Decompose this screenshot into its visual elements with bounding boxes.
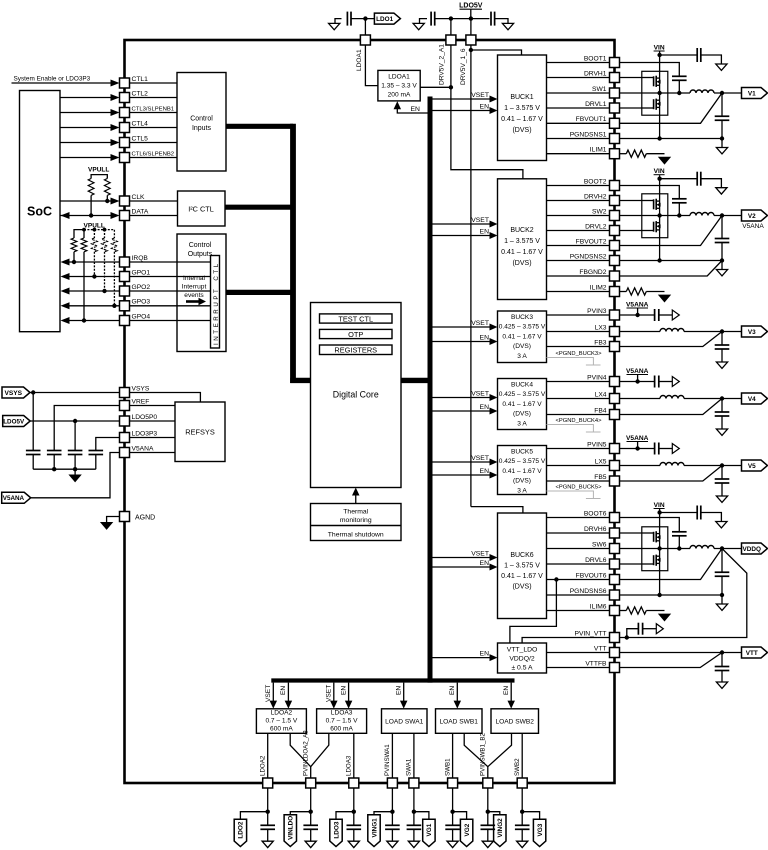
pin LDO3P3 [120,433,130,443]
junction PVIN_VTT bypass [625,635,629,639]
svg-text:EN: EN [480,468,490,475]
svg-text:SWB2: SWB2 [514,758,521,776]
svg-text:System Enable or LDO3P3: System Enable or LDO3P3 [14,75,91,82]
block BUCK2 [498,179,547,300]
wire VSET BUCK4 [432,397,490,399]
svg-text:V5ANA: V5ANA [3,495,25,502]
wire FB3 internal [547,346,610,348]
wire VPULL bracket solid part [74,230,84,238]
svg-text:V5ANA: V5ANA [626,368,649,375]
wire SoC to CLK [60,200,111,202]
pin GPO2 [120,286,130,296]
ground DRV5V cap left [420,19,428,24]
block BUCK1 [498,55,547,161]
svg-text:V5ANA: V5ANA [626,301,649,308]
svg-text:GPO3: GPO3 [132,299,151,306]
resistor ILIM6 [620,610,627,612]
junction SW2 chain [657,213,661,217]
wire CTL6/SLPENB2 to Control Inputs [130,157,178,159]
wire GPO3 to SoC [69,305,120,307]
svg-text:VREF: VREF [132,398,150,405]
tag V5ANA [2,492,31,503]
svg-text:(DVS): (DVS) [513,343,531,350]
wire cap to ground LDOA2 [267,829,269,841]
wire DRV5V top rail [435,18,490,20]
svg-text:LDO2: LDO2 [238,821,245,838]
svg-text:LX3: LX3 [595,324,607,331]
svg-text:LDO1: LDO1 [376,16,393,23]
svg-text:DRVL6: DRVL6 [585,557,607,564]
wire FB5 feedback [620,466,723,482]
ground ILIM1 (filled) [659,157,670,164]
junction VSYS cap [31,390,35,394]
svg-text:VSET: VSET [326,685,333,702]
inductor L4 [660,396,684,399]
wire LX4 to inductor [620,398,661,400]
capacitor VTT output [715,666,730,668]
svg-text:LOAD SWA1: LOAD SWA1 [385,718,424,725]
svg-text:I²C CTL: I²C CTL [188,204,214,213]
wire GPO1 to SoC [69,276,120,278]
svg-text:V3: V3 [748,329,756,336]
wire R to DATA [90,195,92,215]
wire LDOA1 pin from top node [364,19,366,35]
inductor L3 [660,329,684,332]
junction bottom LDOA2 [266,810,270,814]
junction bootstrap SW6 [677,546,681,550]
wire SWB1 to bottom node [452,788,454,825]
svg-text:CTL4: CTL4 [132,120,149,127]
wire PVIN5 to arrow [659,448,673,450]
wire inductor to node V5 [684,465,742,467]
svg-text:0.7 – 1.5 V: 0.7 – 1.5 V [265,718,297,725]
svg-text:SW6: SW6 [592,541,607,548]
wire DRVL1 internal [547,107,610,109]
pin LDOA1 [360,35,370,45]
block LOAD SWB1 [436,709,483,734]
wire CTL5 to Control Inputs [130,142,178,144]
junction PGND cap V1 [720,136,724,140]
wire FBVOUT2 feedback [620,216,723,246]
wire LX5 to inductor [620,465,661,467]
svg-text:0.41 – 1.67 V: 0.41 – 1.67 V [502,401,542,408]
svg-text:V5ANA: V5ANA [132,445,154,452]
svg-text:VG3: VG3 [537,823,544,836]
wire PGNDSNS6 external [620,594,723,596]
wire PVIN5 external [620,448,655,450]
svg-text:ILIM6: ILIM6 [590,603,607,610]
inductor L1 [690,90,714,93]
wire GPO2 to SoC [69,290,120,292]
wire LDO3P3 cap [96,438,120,451]
wire DRV5V_1_6 to BUCK1 top [471,50,522,55]
svg-text:VIN: VIN [654,168,665,175]
pin SW2 [610,211,620,221]
pin DRV5V_2_A1 [446,35,456,45]
svg-text:0.41 – 1.67 V: 0.41 – 1.67 V [501,249,543,256]
wire FBGND2 internal [547,275,610,277]
pin VREF [120,401,130,411]
wire VSET BUCK5 [432,461,490,463]
junction DRV5V_2_A1 LDOA1 supply [449,85,453,89]
wire VSET BUCK6 [432,557,490,559]
wire CTL4 to Control Inputs [130,127,178,129]
transistor Q low-side BUCK2 [642,230,654,232]
wire PGND_BUCK4 stub (gray) [547,425,594,433]
resistor R pull-up GPO3 (dashed) [112,238,118,252]
wire EN BUCK5 [432,474,490,476]
wire inductor to node V4 [684,398,742,400]
junction VIN BUCK2 [657,177,661,181]
wire PVIN4 to arrow [659,381,673,383]
wire FBVOUT2 internal [547,245,610,247]
resistor R pull-up CLK [104,179,110,196]
svg-text:600 mA: 600 mA [330,726,353,733]
pin DRVH1 [610,73,620,83]
pin LDOA2 [263,778,273,788]
wire DRVH6 lead [620,532,642,534]
wire DRV5V_2_A1 vertical [450,45,452,87]
capacitor VIN bypass BUCK1 [696,48,698,62]
svg-text:GPO4: GPO4 [132,313,151,320]
tag LDO1 [374,13,400,24]
junction bottom PVINSWA1 [390,810,394,814]
capacitor bottom LDOA3 [347,824,362,826]
wire EN VTT_LDO [432,657,490,659]
block Control Inputs [177,73,226,172]
resistor R pull-up IRQB [71,238,77,252]
wire PVIN_VTT internal [522,638,609,644]
wire ILIM1 internal [547,153,610,155]
wire output cap V3 [721,332,723,346]
svg-text:EN: EN [340,686,347,695]
pin PVINSWB1_B2 [483,778,493,788]
capacitor output C VDDQ [715,571,730,573]
wire cap to ground LDOA3 [353,829,355,841]
ground bottom LDOA3 [348,841,359,847]
capacitor VREF bypass [47,450,62,452]
svg-text:BOOT6: BOOT6 [584,510,607,517]
ground VIN bypass BUCK2 [716,188,727,194]
wire bootstrap cap to SW6 [678,536,680,549]
wire tag VG1 elbow [414,812,429,820]
wire VTTFB feedback [620,653,723,668]
wire BOOT1 internal [547,62,610,64]
svg-text:LDO5V: LDO5V [3,418,25,425]
capacitor bottom SWA1 [407,824,422,826]
wire SoC to CTL4 [60,127,111,129]
tag VG1 [423,819,435,846]
wire PVIN4 internal [547,381,610,383]
inductor L2 [690,213,714,216]
tag VG2 [460,819,472,846]
wire DRV5V_2_A1 pin from node [450,19,452,35]
block VTT_LDO [498,643,547,673]
svg-text:LOAD SWB1: LOAD SWB1 [439,718,478,725]
wire FBVOUT6 feedback [620,549,723,580]
wire DRVL1 lead [620,107,642,109]
wire inductor to output node V1 [714,92,742,94]
tag VSYS [2,387,30,398]
svg-text:IRQB: IRQB [132,255,149,262]
wire VIN vertical BUCK2 [659,175,661,215]
svg-text:0.425 – 3.575 V: 0.425 – 3.575 V [499,391,546,398]
svg-text:CTL5: CTL5 [132,135,149,142]
svg-text:<PGND_BUCK5>: <PGND_BUCK5> [555,485,602,491]
capacitor bottom LDOA2 [260,824,275,826]
junction chain PGND BUCK6 [657,593,661,597]
wire DRV5V_1_6 pin from node [470,19,472,35]
wire BOOT2 internal [547,185,610,187]
wire LDOA3 to bottom node [353,788,355,825]
wire DRVL6 lead [620,563,642,565]
wire PVIN5 internal [547,448,610,450]
svg-text:3 A: 3 A [517,353,527,360]
wire PVIN3 internal [547,314,610,316]
wire EN drop LDOA3 [348,683,350,701]
wire PVIN3 external [620,314,655,316]
wire tag VG2 elbow [453,812,467,820]
wire V5ANA drop BUCK4 [637,375,639,382]
svg-text:EN: EN [280,686,287,695]
pin BOOT2 [610,181,620,191]
wire inductor to output node VDDQ [714,548,742,550]
svg-text:Inputs: Inputs [192,125,212,132]
svg-text:V4: V4 [748,396,756,403]
wire V5ANA drop BUCK3 [637,308,639,315]
wire VPULL bracket dashed part [84,230,114,238]
svg-text:LDO3: LDO3 [333,821,340,838]
wire EN BUCK6 [432,566,490,568]
capacitor DRV5V bypass left [430,12,432,26]
junction DATA pull-up [89,213,93,217]
ground bottom SWA1 [408,841,419,847]
ground LDO1 cap [335,19,342,24]
junction chain PGND BUCK2 [657,258,661,262]
capacitor output C V1 [715,115,730,117]
wire GPO3 from INTERRUPT_CTL [130,305,211,307]
ground VTT output [716,682,727,688]
svg-text:1.35 – 3.3 V: 1.35 – 3.3 V [381,82,417,89]
wire GPO4 to SoC [69,320,120,322]
wire cap to ground SWB1 [452,829,454,841]
wire inductor to output node V2 [714,215,742,217]
wire EN BUCK3 [432,341,490,343]
junction R2-GPO4 [82,318,86,322]
wire VIN bypass BUCK1 [660,54,698,56]
wire CTL2 to Control Inputs [130,97,178,99]
svg-text:PVINSWA1: PVINSWA1 [384,744,391,776]
pin LDOA3 [349,778,359,788]
resistor R pull-up GPO2 (dashed) [104,230,106,238]
junction VTT node [720,650,724,654]
resistor R pull-up DATA [88,179,94,196]
bus Control Inputs to digital bus [226,124,293,129]
pin SWA1 [409,778,419,788]
pin AGND [120,512,130,522]
svg-text:VSET: VSET [471,320,489,327]
junction SW6 chain [657,546,661,550]
wire SoC to CTL5 [60,142,111,144]
wire DRVH1 internal [547,77,610,79]
wire SoC to DATA (bidirectional) [60,215,111,217]
junction output node V2 [720,213,724,217]
svg-text:VING2: VING2 [497,818,504,838]
svg-text:(DVS): (DVS) [513,411,531,418]
junction FBVOUT6 tap [554,577,558,581]
svg-text:GPO1: GPO1 [132,269,151,276]
wire PGNDSNS6 internal [547,594,610,596]
svg-text:INTERRUPT_CTL: INTERRUPT_CTL [213,261,220,345]
capacitor bottom PVINSWB1_B2 [481,824,496,826]
wire output cap VDDQ [721,549,723,573]
svg-text:0.41 – 1.67 V: 0.41 – 1.67 V [502,468,542,475]
pin CTL6/SLPENB2 [120,153,130,163]
tag V2 [742,210,768,221]
pin ILIM6 [610,606,620,616]
transistor Q low-side BUCK6 [642,563,654,565]
svg-text:CTL6/SLPENB2: CTL6/SLPENB2 [132,151,175,157]
pin FB3 [610,342,620,352]
ground DRV5V cap right [495,19,508,24]
junction VPULL bracket [82,228,86,232]
wire VSET drop LDOA2 [272,683,274,701]
wire cap to ground SWB2 [521,829,523,841]
junction bootstrap SW1 [677,91,681,95]
wire SW6 to inductor [620,548,691,550]
pin ILIM1 [610,149,620,159]
wire PGND to ground V1 [721,139,723,148]
wire R3 to GPO1 (dashed) [93,252,95,277]
block BUCK5 [498,446,547,495]
wire EN drop LDOA2 [287,683,289,701]
wire LX3 to inductor [620,331,661,333]
wire PVINSWA1 [391,733,393,778]
pin PVINSWA1 [387,778,397,788]
wire LDOA3 output [353,733,355,778]
svg-text:VSET: VSET [471,551,489,558]
svg-text:FB4: FB4 [594,407,607,414]
svg-text:CTL3/SLPENB1: CTL3/SLPENB1 [132,106,175,112]
svg-text:PVINSWB1_B2: PVINSWB1_B2 [480,732,487,776]
pin DRVH2 [610,196,620,206]
pin DRVL6 [610,559,620,569]
tag LDO2 [234,819,246,846]
svg-text:0.425 – 3.575 V: 0.425 – 3.575 V [499,324,546,331]
svg-text:LDOA2: LDOA2 [259,755,266,776]
pin DRVH6 [610,528,620,538]
svg-text:Thermal: Thermal [343,509,368,516]
svg-text:SoC: SoC [27,205,52,219]
pin SW1 [610,88,620,98]
svg-text:VING1: VING1 [371,818,378,838]
wire VTTFB internal [547,667,610,669]
wire SWB2 [521,733,523,778]
svg-text:DRV5V_2_A1: DRV5V_2_A1 [439,44,446,85]
svg-text:0.41 – 1.67 V: 0.41 – 1.67 V [501,573,543,580]
junction DRV5V_1_6 branch BUCK1 [469,48,473,52]
wire FB4 feedback [620,399,723,415]
wire DRVH2 lead [620,200,642,202]
svg-text:EN: EN [480,651,490,658]
junction node V3 [720,329,724,333]
block BUCK3 [498,311,547,363]
capacitor LDO3P3 bypass [89,450,104,452]
wire LDOA1 pin to block [365,45,378,86]
svg-text:VTT_LDO: VTT_LDO [507,646,538,653]
ground bottom PVINSWB1_B2 [482,841,493,847]
wire GPO4 from INTERRUPT_CTL [130,320,211,322]
svg-text:LX4: LX4 [595,391,607,398]
pin LX4 [610,394,620,404]
junction VPULL bracket [103,228,107,232]
svg-text:Thermal shutdown: Thermal shutdown [328,532,384,539]
wire LX3 internal [547,331,610,333]
wire tag VING2 elbow [488,812,500,815]
wire FBVOUT6 internal [547,579,610,581]
pin DRV5V_1_6 [466,35,476,45]
bus to Digital Core left [290,378,310,383]
junction R5-GPO3 [112,304,116,308]
wire FB4 internal [547,414,610,416]
svg-text:LOAD SWB2: LOAD SWB2 [495,718,534,725]
svg-text:ILIM2: ILIM2 [590,284,607,291]
wire tag LDO3 elbow [336,812,354,820]
wire VIN vertical BUCK1 [659,52,661,94]
svg-text:BUCK5: BUCK5 [511,449,533,456]
junction output node VDDQ [720,546,724,550]
offpage arrow PVIN_VTT [656,624,663,634]
wire AGND [107,517,120,523]
wire PGNDSNS2 external [620,260,723,262]
ground ILIM6 (filled) [659,614,670,621]
wire R5 to GPO3 (dashed) [113,252,115,306]
pin DRVL2 [610,226,620,236]
wire SW2 to inductor [620,215,691,217]
pin PVIN4 [610,377,620,387]
junction SW1 chain [657,91,661,95]
svg-text:EN: EN [411,106,421,113]
svg-text:VSET: VSET [471,391,489,398]
tag VING1 [368,815,380,847]
svg-text:SWB1: SWB1 [444,758,451,776]
junction R1-IRQB [72,260,76,264]
junction bottom LDOA3 [352,810,356,814]
transistor Q high-side BUCK2 [642,200,654,202]
junction V5ANA PVIN3 [635,313,639,317]
pin SW6 [610,544,620,554]
pin PGNDSNS2 [610,256,620,266]
wire VTT internal [547,652,610,654]
svg-text:BUCK4: BUCK4 [511,382,533,389]
wire EN drop LOAD SWA1 [403,683,405,701]
svg-text:(DVS): (DVS) [512,260,531,267]
pin GPO3 [120,301,130,311]
wire PVINLDOA2_A3 to bottom node [310,788,312,825]
svg-text:(DVS): (DVS) [512,127,531,134]
capacitor PVIN5 [654,443,656,455]
inductor L6 [690,546,714,549]
wire IRQB from INTERRUPT_CTL [130,261,211,263]
wire inductor to node V3 [684,331,742,333]
wire PGND to ground V2 [721,261,723,270]
block I2C CTL [178,191,226,226]
pin PVINLDOA2_A3 [306,778,316,788]
svg-text:FBGND2: FBGND2 [579,269,606,276]
svg-text:VSET: VSET [471,455,489,462]
svg-text:Digital Core: Digital Core [333,389,379,399]
junction cap bus [52,467,56,471]
